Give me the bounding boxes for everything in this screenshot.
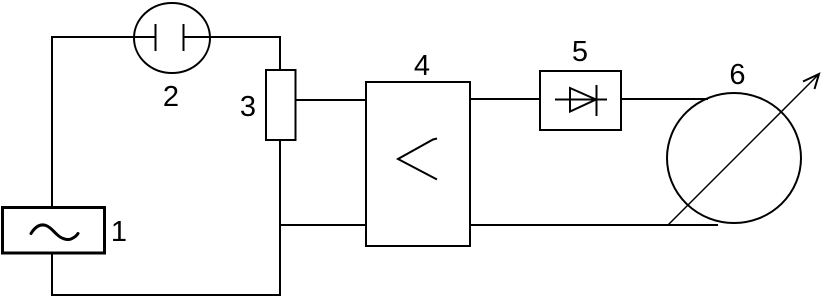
wire W2: capacitor right plate across top and down to resistor R top	[184, 37, 280, 70]
wire W6: source bottom to bottom rail	[51, 253, 53, 296]
wire W10: diode box 5 output to meter M6	[621, 98, 708, 100]
wire W5: bottom rail	[51, 294, 281, 296]
diode rectifier V (element 5, box with diode)	[540, 71, 621, 130]
meter M6 (element 6, circle)	[667, 93, 801, 223]
svg-text:5: 5	[572, 36, 588, 68]
capacitor C (element 2, circle symbol)	[134, 3, 210, 73]
svg-text:3: 3	[240, 91, 256, 123]
wire W3: resistor right tap to amplifier U4 upper input	[296, 99, 366, 101]
wire W8: amplifier U4 upper output to diode box 5	[470, 98, 541, 100]
svg-text:1: 1	[111, 216, 127, 248]
wire W1: left rail from source top up and across to capacitor left plate	[52, 37, 156, 207]
AC source G (element 1)	[3, 208, 105, 254]
wire W7: junction on W4 to amplifier U4 lower input	[279, 224, 366, 226]
svg-text:4: 4	[414, 50, 430, 82]
svg-text:6: 6	[729, 59, 745, 91]
amplifier U4 (element 4, box with < symbol)	[366, 82, 470, 246]
wire W4: resistor bottom down to bottom rail	[279, 140, 281, 296]
resistor R (element 3)	[266, 70, 296, 140]
arrow needle through meter M6	[668, 74, 819, 225]
wire W9: amplifier U4 lower output to meter M6	[470, 224, 718, 226]
svg-text:2: 2	[163, 81, 179, 113]
